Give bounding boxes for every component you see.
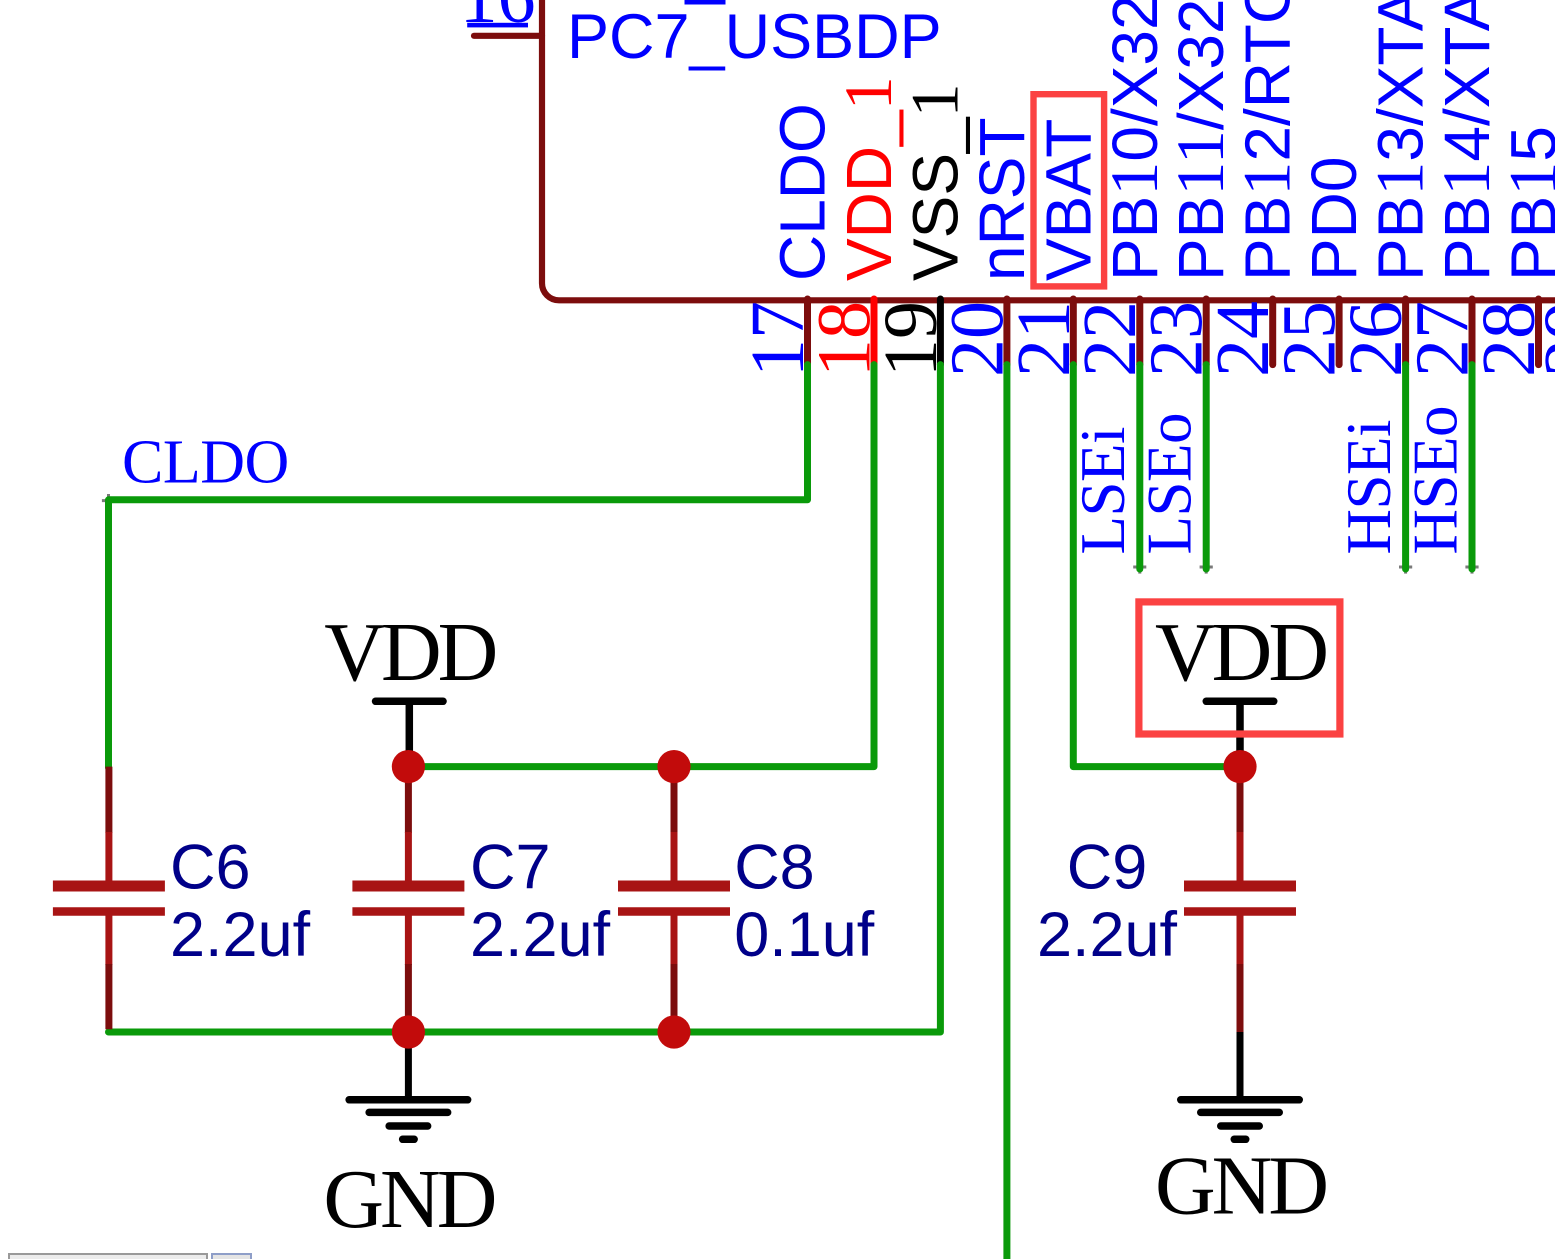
svg-text:nRST: nRST [966,117,1038,281]
svg-text:PB12/RTC: PB12/RTC [1229,0,1305,281]
svg-text:C6: C6 [170,833,251,903]
svg-text:HSEi: HSEi [1334,420,1404,555]
svg-text:2.2uf: 2.2uf [470,900,611,970]
svg-text:PB11/X32KOUT: PB11/X32KOUT [1162,0,1238,281]
svg-text:C8: C8 [734,833,815,903]
svg-text:PB13/XTALI: PB13/XTALI [1362,0,1438,281]
svg-text:29: 29 [1529,301,1555,377]
svg-text:PC7_USBDP: PC7_USBDP [567,2,942,72]
svg-text:0.1uf: 0.1uf [734,900,875,970]
svg-text:16: 16 [460,0,536,39]
svg-text:GND: GND [323,1153,494,1246]
svg-text:VSS_1: VSS_1 [896,83,972,281]
svg-text:VBAT: VBAT [1032,119,1104,281]
svg-text:CLDO: CLDO [767,103,839,281]
svg-text:PB14/XTALO: PB14/XTALO [1428,0,1504,281]
svg-text:C9: C9 [1067,833,1148,903]
svg-text:GND: GND [1155,1140,1326,1233]
svg-text:LSEi: LSEi [1068,427,1138,555]
svg-text:VDD: VDD [324,606,495,699]
svg-text:C7: C7 [470,833,551,903]
svg-text:2.2uf: 2.2uf [1037,900,1178,970]
svg-text:LSEo: LSEo [1135,413,1205,555]
svg-text:PB15: PB15 [1495,126,1555,281]
svg-text:HSEo: HSEo [1401,406,1471,555]
svg-text:PD0: PD0 [1298,157,1370,282]
svg-text:2.2uf: 2.2uf [170,900,311,970]
svg-text:VDD: VDD [1155,606,1326,699]
svg-text:CLDO: CLDO [122,429,289,497]
svg-text:VDD_1: VDD_1 [830,76,906,281]
